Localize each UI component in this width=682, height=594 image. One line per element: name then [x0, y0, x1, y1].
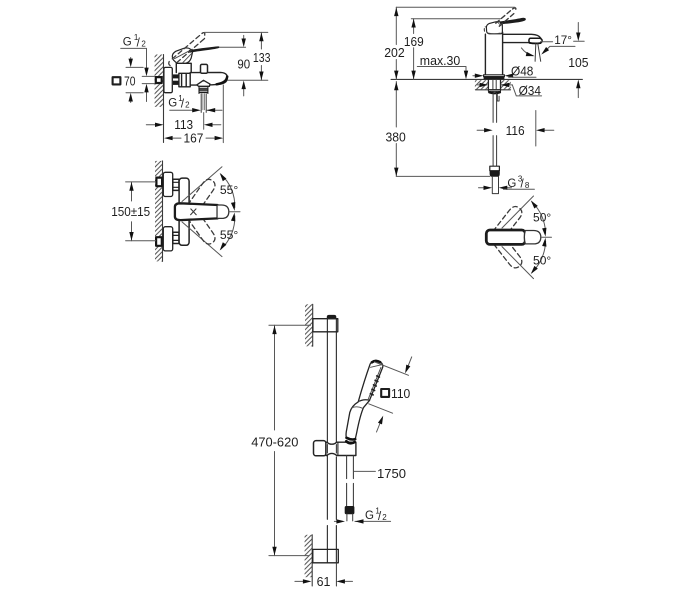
- mixer body (vertical): [179, 178, 189, 245]
- deck section hatch right: [501, 80, 511, 89]
- top reference line (raised lever tip): [396, 6, 515, 8]
- shower handle: [346, 400, 369, 439]
- G3/8 dimension arrows: [479, 187, 484, 189]
- G1/2 label underline + leader to pipe dimension: [121, 48, 147, 101]
- dimension 61: [295, 580, 303, 582]
- svg-text:G: G: [123, 37, 132, 49]
- svg-text:Ø48: Ø48: [511, 64, 533, 79]
- bottom in-wall fitting: [156, 237, 162, 246]
- deck bottom line: [475, 89, 510, 91]
- dimension 113 (outside arrows): [146, 124, 155, 126]
- dimension 380: [395, 82, 397, 177]
- svg-text:/: /: [137, 37, 141, 49]
- 380 bottom reference line: [396, 175, 490, 177]
- hose nut (dark): [345, 507, 354, 514]
- svg-text:G: G: [168, 98, 177, 110]
- spout lip thick curve: [217, 77, 228, 85]
- head face rim line: [368, 365, 382, 400]
- label G1/2 (wall connection, top-left): [123, 33, 147, 49]
- G1/2 pipe dim arrows: [144, 68, 148, 77]
- dimension 202: [395, 7, 397, 79]
- label 1750 with leader: [354, 470, 375, 472]
- wall face line: [162, 161, 164, 262]
- 150±15 reference lines: [126, 182, 156, 241]
- handle top reference line: [220, 46, 246, 48]
- svg-text:50°: 50°: [533, 210, 551, 224]
- dimension 90 (outside arrows): [243, 35, 245, 39]
- top union nut: [173, 179, 179, 190]
- dashed lever up position: [494, 207, 522, 238]
- deck section hatch left: [475, 80, 488, 89]
- svg-text:8: 8: [525, 181, 530, 190]
- svg-text:2: 2: [141, 39, 146, 48]
- union nuts (dark): [173, 74, 179, 78]
- lever (solid, horizontal): [175, 203, 218, 220]
- square70 arrows (outside): [130, 58, 132, 60]
- handle knob: [486, 22, 502, 34]
- dimension 169: [413, 19, 415, 80]
- svg-text:17°: 17°: [554, 33, 572, 47]
- pipe tail below fitting: [492, 176, 498, 193]
- svg-text:110: 110: [391, 386, 410, 401]
- svg-text:61: 61: [317, 574, 331, 589]
- arc arrowheads: [218, 172, 227, 182]
- pivot cross: [191, 209, 197, 215]
- svg-text:G: G: [507, 178, 516, 190]
- svg-text:90: 90: [237, 56, 250, 71]
- 55deg legs: [182, 167, 222, 257]
- handle butt inside holder (dark): [346, 441, 354, 443]
- diverter knob: [201, 64, 208, 73]
- label G1/2 (hose): [365, 507, 387, 523]
- knob ghost arc (dashed): [484, 27, 485, 31]
- svg-text:470-620: 470-620: [251, 434, 298, 449]
- wall face line: [163, 55, 165, 143]
- square110 lower arrow: [377, 423, 381, 432]
- hose end stub: [347, 514, 353, 521]
- head top cap (dark): [372, 361, 380, 362]
- in-wall fitting square: [156, 77, 162, 83]
- bottom escutcheon: [163, 227, 172, 251]
- spout bottom reference line: [228, 79, 268, 81]
- shower rail: [327, 319, 336, 563]
- 50deg legs: [502, 196, 534, 279]
- supply pipe lower part (after break): [493, 136, 497, 167]
- wall hatch (side view): [155, 55, 164, 107]
- hose centre extension line: [203, 113, 205, 130]
- mounting shank below deck: [488, 80, 500, 90]
- handle lever arm (dark): [500, 18, 525, 24]
- outlet cylinder rings: [199, 86, 208, 93]
- wall hatch (front view): [155, 161, 163, 262]
- svg-text:150±15: 150±15: [111, 204, 150, 219]
- svg-text:2: 2: [185, 101, 190, 110]
- base flange: [484, 75, 505, 77]
- svg-text:2: 2: [382, 513, 387, 522]
- bottom union nut: [173, 232, 179, 243]
- base dark band: [484, 77, 505, 79]
- bottom bracket: [313, 549, 339, 562]
- lever end cap: [524, 231, 540, 244]
- svg-text:169: 169: [404, 34, 424, 49]
- square110 upper extension line: [375, 362, 409, 375]
- handle knob: [172, 48, 192, 63]
- hose stub below outlet: [201, 94, 206, 113]
- Ø34 dimension arrows on shank: [478, 84, 480, 86]
- supply stub pipe left of wall: [142, 76, 155, 83]
- svg-text:380: 380: [386, 129, 406, 144]
- svg-text:55°: 55°: [220, 183, 239, 197]
- raised lever (dashed): [496, 8, 516, 26]
- spout arm: [503, 34, 541, 42]
- water stream 17deg: [535, 44, 541, 62]
- label G1/2 (shower hose outlet): [168, 94, 190, 110]
- dashed lever down position: [188, 211, 215, 244]
- G1/2 underline leader into arrow: [170, 109, 193, 111]
- dimension 133 (inside arrows): [260, 32, 262, 80]
- deck / counter line: [391, 78, 582, 80]
- slider body: [326, 442, 356, 455]
- Ø48 arrows at flange: [473, 75, 475, 77]
- 470-620 dimension line: [274, 325, 276, 555]
- centerline right of lever: [229, 211, 240, 213]
- raised lever (dashed): [169, 33, 205, 66]
- escutcheon plate (side): [164, 67, 172, 92]
- G1/2 hose dim arrows: [334, 520, 336, 522]
- cartridge column under handle: [176, 63, 191, 72]
- dimension 105: [574, 23, 585, 98]
- handle knob inner detail: [488, 22, 501, 34]
- stream swivel arc with arrow: [521, 48, 532, 56]
- arc arrowheads: [529, 199, 538, 208]
- faucet body and spout: [190, 72, 227, 85]
- 470-620 reference lines: [269, 325, 311, 555]
- spray face ticks: [370, 376, 379, 395]
- collar dark bottom: [489, 92, 500, 93]
- top wall hatch: [305, 304, 313, 346]
- square110 upper arrow: [408, 357, 412, 366]
- 17deg leader with arrow: [543, 46, 575, 53]
- dashed lever down position: [494, 236, 522, 267]
- rail top cap (dark): [327, 315, 336, 318]
- swing arc lower: [221, 216, 235, 249]
- supply pipe upper part: [493, 93, 497, 122]
- shower outlet bell: [197, 80, 210, 86]
- 150±15 dimension line with inside arrows: [131, 182, 133, 241]
- aerator dark lip: [530, 42, 541, 45]
- hose lower: [347, 483, 354, 506]
- centerline right of lever: [542, 236, 552, 238]
- pop-up rod detail: [497, 95, 499, 102]
- square110 lower extension line: [369, 404, 393, 413]
- spout aerator: [529, 38, 542, 43]
- label G3/8 underlined: [507, 175, 530, 191]
- slider knob: [314, 441, 327, 456]
- dimension square70 reference lines: [126, 67, 143, 92]
- top in-wall fitting: [156, 178, 162, 187]
- handle knob facet lines: [174, 51, 191, 63]
- top reference line (raised lever): [205, 31, 268, 33]
- svg-text:max.30: max.30: [420, 53, 461, 68]
- top escutcheon: [163, 172, 172, 196]
- hand shower head: [358, 360, 383, 401]
- pipe collar: [490, 166, 500, 171]
- G1/2 outlet dim arrows: [192, 108, 201, 112]
- label square 70: [113, 77, 121, 84]
- shank pipe lines: [493, 80, 496, 93]
- dimension 167 (inside arrows): [222, 85, 224, 143]
- swing arc upper: [221, 174, 235, 207]
- handle top reference line: [411, 18, 500, 20]
- swing arc upper: [532, 202, 546, 233]
- svg-text:133: 133: [253, 50, 271, 65]
- svg-text:116: 116: [506, 123, 525, 138]
- rail right edge extension below bracket: [335, 563, 337, 586]
- bottom wall hatch: [305, 535, 313, 577]
- handle lever arm (dark): [190, 47, 220, 53]
- svg-text:G: G: [365, 510, 374, 522]
- dimension 116: [477, 129, 484, 131]
- svg-text:50°: 50°: [533, 254, 551, 268]
- G1/2 underline merged with arrow: [355, 520, 391, 522]
- basin mixer body: [485, 32, 502, 75]
- valve body block: [179, 73, 190, 87]
- svg-text:202: 202: [384, 45, 405, 60]
- top wall face line: [312, 304, 314, 346]
- svg-text:167: 167: [184, 131, 204, 146]
- handle inner line: [352, 407, 363, 409]
- svg-text:105: 105: [568, 55, 588, 70]
- svg-text:70: 70: [124, 73, 136, 88]
- lever end cap: [218, 205, 229, 218]
- handle butt (dark): [347, 438, 356, 440]
- pipe end fitting (dark): [490, 171, 499, 176]
- lever grip (solid thick): [486, 230, 525, 244]
- top bracket: [313, 319, 338, 332]
- svg-text:55°: 55°: [220, 228, 239, 242]
- svg-text:1750: 1750: [377, 466, 406, 481]
- hose upper: [347, 456, 354, 479]
- swing arc lower: [532, 241, 546, 272]
- fixing collar: [488, 90, 500, 92]
- label square 110: [381, 389, 389, 397]
- dashed lever up position: [188, 179, 215, 212]
- bottom wall face line + extension: [311, 535, 313, 586]
